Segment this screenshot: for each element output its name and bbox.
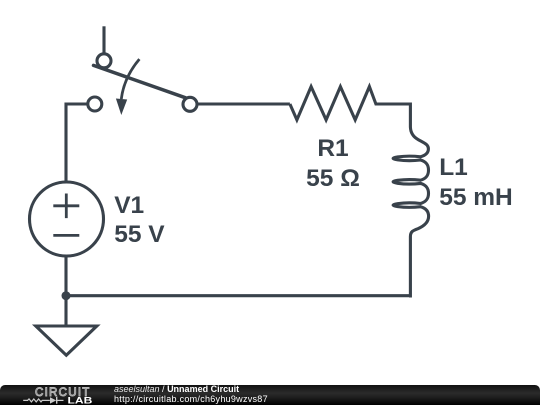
svg-text:LAB: LAB: [68, 395, 93, 405]
